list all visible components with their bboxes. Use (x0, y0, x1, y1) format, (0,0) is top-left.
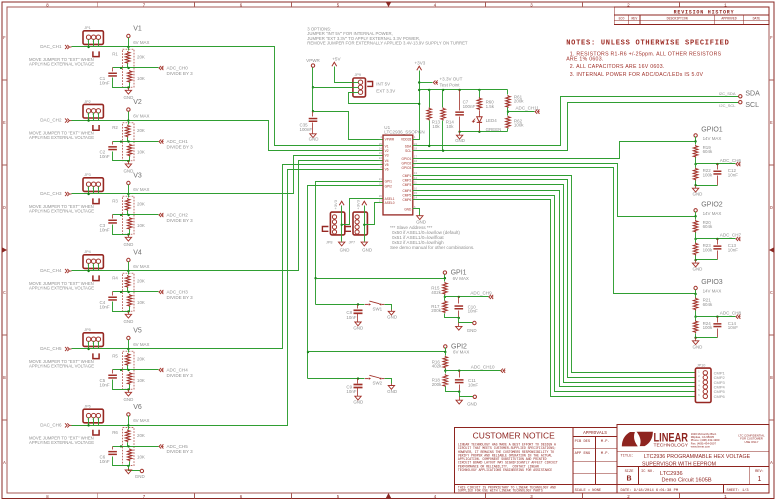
svg-text:+3V3: +3V3 (333, 199, 338, 209)
svg-text:VPWR: VPWR (306, 58, 320, 63)
svg-text:JP3: JP3 (84, 173, 91, 177)
svg-text:6V MAX: 6V MAX (133, 113, 149, 118)
output arrow ADC_CH2 (159, 213, 161, 217)
capacitor C1 10nF (112, 68, 114, 72)
frame center marker top (386, 2, 392, 7)
wire +5V to JP9 pin 1 (335, 67, 353, 83)
turret V6 GND (140, 469, 143, 472)
svg-text:1: 1 (758, 476, 762, 483)
svg-text:604k: 604k (703, 149, 713, 154)
svg-text:GPIO3: GPIO3 (402, 166, 412, 170)
svg-text:200k: 200k (431, 308, 441, 313)
svg-text:GND: GND (123, 242, 133, 247)
title block main box (617, 425, 769, 494)
wire JP8 vertical (341, 206, 343, 242)
svg-text:ADC_CH9: ADC_CH9 (470, 291, 492, 296)
svg-text:4: 4 (434, 495, 437, 500)
svg-text:JP9: JP9 (355, 73, 362, 77)
wire tap ADC_CH10 (444, 370, 446, 372)
svg-text:10nF: 10nF (728, 325, 738, 330)
ground JP7 (361, 242, 367, 246)
svg-text:6V MAX: 6V MAX (133, 40, 149, 45)
svg-text:5: 5 (337, 3, 340, 8)
svg-text:DAC_CH2: DAC_CH2 (40, 118, 62, 123)
svg-text:10K: 10K (137, 378, 145, 383)
svg-text:10nF: 10nF (346, 389, 356, 394)
turret V6 (127, 413, 130, 416)
svg-text:M.P.: M.P. (601, 452, 610, 456)
resistor R17 200k (444, 297, 446, 301)
jumper JP4 pin stubs (88, 264, 90, 271)
svg-text:GND: GND (123, 95, 133, 100)
svg-text:5: 5 (337, 495, 340, 500)
wire net V6 rail (72, 170, 379, 426)
svg-text:GND: GND (455, 138, 465, 143)
turret V1 (127, 34, 130, 37)
wire net V3 rail (72, 156, 379, 194)
turret V5 (127, 336, 130, 339)
turret V4 (127, 258, 130, 261)
svg-text:10nF: 10nF (100, 154, 110, 159)
wire net GPIO3 (417, 168, 696, 294)
output arrow ADC_CH7 (736, 237, 738, 241)
wire net CMP1 (417, 176, 696, 373)
svg-text:ADC_CH11: ADC_CH11 (516, 106, 540, 111)
svg-text:20K: 20K (137, 202, 145, 207)
pin 23 V3 (379, 155, 383, 157)
svg-text:A: A (770, 461, 773, 466)
svg-text:GPIO3: GPIO3 (701, 279, 723, 286)
svg-text:GND: GND (693, 344, 703, 349)
svg-text:ADC_CH6: ADC_CH6 (720, 158, 742, 163)
pin 6 GND (413, 208, 417, 210)
svg-text:LTC2936 PROGRAMMABLE HEX VOLTA: LTC2936 PROGRAMMABLE HEX VOLTAGE (644, 454, 751, 460)
svg-text:10nF: 10nF (100, 305, 110, 310)
svg-text:GPIO1: GPIO1 (701, 127, 723, 134)
connector JP3 (3-pin jumper) (83, 178, 103, 192)
svg-text:SCL: SCL (405, 149, 411, 153)
capacitor C11 10nF (459, 371, 461, 378)
switch SW2 (365, 378, 369, 380)
svg-text:GND: GND (123, 397, 133, 402)
svg-text:GND: GND (416, 219, 426, 224)
svg-text:200k: 200k (432, 382, 442, 387)
pin 10 CMP4 (413, 190, 417, 192)
svg-text:10nF: 10nF (468, 382, 478, 387)
pin 13 CMP1 (413, 175, 417, 177)
svg-text:6V MAX: 6V MAX (453, 350, 469, 355)
svg-text:GND: GND (362, 248, 372, 253)
wire net GPI2 from chip (308, 186, 379, 379)
svg-text:DATE: 9/18/2014 6:01:38 PM: DATE: 9/18/2014 6:01:38 PM (621, 488, 679, 493)
wire GPI2 gnd turret (458, 391, 460, 393)
svg-text:E: E (3, 121, 6, 126)
turret V2 (127, 108, 130, 111)
svg-text:3: 3 (530, 3, 533, 8)
svg-text:2: 2 (627, 3, 630, 8)
svg-text:V6: V6 (133, 404, 142, 411)
svg-text:PCB DES: PCB DES (575, 440, 591, 444)
wire +3V3 vertical (413, 71, 420, 140)
svg-text:DAC_CH6: DAC_CH6 (40, 422, 62, 427)
svg-text:10K: 10K (137, 150, 145, 155)
wire tap ADC_CH9 (444, 296, 446, 298)
wire net I2C_SDA (417, 97, 739, 146)
svg-text:4: 4 (434, 3, 437, 8)
svg-text:CMP1: CMP1 (402, 174, 411, 178)
wire net V2 rail (72, 121, 379, 151)
wire GPI1 gnd turret (458, 317, 460, 319)
input arrow DAC_CH5 (67, 347, 69, 351)
LED LED4 GREEN (479, 111, 481, 117)
ground C7/LED (459, 132, 461, 136)
pin 22 V4 (379, 160, 383, 162)
svg-text:GND: GND (387, 389, 397, 394)
wire VPWR (312, 68, 314, 112)
svg-text:10k: 10k (432, 124, 440, 129)
svg-text:B: B (770, 376, 773, 381)
wire tap ADC_CH6 (694, 163, 696, 165)
output arrow ADC_CH3 (159, 290, 161, 294)
wire GPI1 to switch (316, 304, 365, 306)
jumper shunt marker JP6 (93, 430, 99, 435)
svg-text:10nF: 10nF (100, 459, 110, 464)
pin 21 GPI1 (379, 181, 383, 183)
svg-text:SHEET: 1/3: SHEET: 1/3 (727, 488, 749, 493)
svg-text:10nF: 10nF (728, 173, 738, 178)
resistor R18 200k (445, 371, 447, 374)
svg-text:DIVIDE BY 3: DIVIDE BY 3 (167, 218, 194, 223)
svg-text:10nF: 10nF (346, 315, 356, 320)
svg-text:SCL: SCL (745, 102, 759, 109)
wire SW1 to ground (385, 305, 392, 310)
svg-text:M.P.: M.P. (601, 440, 610, 444)
svg-text:NOTES: UNLESS OTHERWISE SPECIF: NOTES: UNLESS OTHERWISE SPECIFIED (566, 40, 729, 48)
pin 2 V6 (379, 169, 383, 171)
svg-text:GND: GND (387, 315, 397, 320)
svg-text:6V MAX: 6V MAX (133, 342, 149, 347)
svg-text:www.linear.com: www.linear.com (691, 444, 711, 448)
ground V6 divider (128, 469, 130, 470)
svg-text:F: F (3, 36, 6, 41)
svg-text:DAC_CH5: DAC_CH5 (40, 346, 62, 351)
capacitor C12 10nF (717, 164, 719, 170)
svg-text:SCALE = NONE: SCALE = NONE (575, 489, 602, 493)
ground GPI2 divider (459, 397, 461, 401)
wire +3V3 rail (420, 89, 508, 91)
svg-text:6V MAX: 6V MAX (133, 418, 149, 423)
svg-text:7: 7 (143, 3, 146, 8)
svg-text:6: 6 (240, 3, 243, 8)
svg-text:10nF: 10nF (728, 247, 738, 252)
wire V6 bottom to turret (129, 466, 141, 471)
svg-text:GPI1: GPI1 (385, 180, 392, 184)
svg-text:JP2: JP2 (84, 100, 91, 104)
svg-text:V5: V5 (133, 328, 142, 335)
pin 20 GPI2 (379, 185, 383, 187)
wire net V4 rail (72, 161, 379, 271)
svg-text:GPIO2: GPIO2 (402, 162, 412, 166)
svg-text:R2: R2 (112, 125, 118, 130)
svg-text:APPROVED: APPROVED (721, 16, 736, 20)
jumper JP3 pin stubs (88, 187, 90, 194)
svg-text:20K: 20K (137, 357, 145, 362)
svg-text:DIVIDE BY 3: DIVIDE BY 3 (167, 295, 194, 300)
output arrow ADC_CH5 (159, 444, 161, 448)
wire GPIO1 bottom (696, 185, 718, 187)
svg-text:REVISION HISTORY: REVISION HISTORY (674, 10, 735, 16)
svg-text:R4: R4 (112, 276, 118, 281)
turret GPI1 (443, 271, 446, 274)
pin 24 V2 (379, 150, 383, 152)
wire GPI2 node feed (308, 351, 446, 353)
resistor R22 100k (695, 164, 697, 168)
svg-text:V4: V4 (385, 159, 389, 163)
wire tap ADC divider V6 (113, 446, 159, 448)
svg-text:DIVIDE BY 3: DIVIDE BY 3 (167, 373, 194, 378)
svg-text:ARE 1% 0603.: ARE 1% 0603. (566, 56, 603, 62)
resistor network R4 20K/10K (123, 273, 134, 311)
svg-text:GND: GND (467, 402, 477, 407)
svg-text:DIVIDE BY 3: DIVIDE BY 3 (167, 71, 194, 76)
svg-text:APP ENG: APP ENG (575, 452, 591, 456)
wire tap ADC_CH7 (694, 238, 696, 240)
svg-text:TECHNOLOGY: TECHNOLOGY (654, 442, 689, 447)
resistor network R2 20K/10K (123, 123, 134, 161)
svg-text:USE ONLY: USE ONLY (745, 440, 759, 444)
ground C9 (355, 396, 361, 400)
wire tap ADC divider V4 (113, 291, 159, 293)
wire LED bottom rail (460, 131, 508, 133)
jumper shunt marker JP1 (93, 51, 99, 56)
pin 17 GPIO1 (413, 158, 417, 160)
ground SW2 (391, 384, 393, 386)
svg-text:10nF: 10nF (468, 309, 478, 314)
svg-text:V2: V2 (385, 149, 389, 153)
jumper JP2 pin stubs (88, 113, 90, 121)
svg-text:200k: 200k (514, 99, 524, 104)
svg-text:V6: V6 (385, 168, 389, 172)
revision history table (614, 7, 769, 25)
svg-text:DATE: DATE (753, 16, 761, 20)
svg-text:+5V: +5V (332, 57, 341, 62)
svg-text:TECHNOLOGY APPLICATIONS ENGINE: TECHNOLOGY APPLICATIONS ENGINEERING FOR … (458, 468, 552, 472)
svg-text:14V MAX: 14V MAX (703, 211, 722, 216)
svg-text:ADC_CH8: ADC_CH8 (720, 310, 742, 315)
test point +3.3V OUT (420, 82, 433, 84)
svg-text:TITLE:: TITLE: (621, 455, 634, 459)
svg-text:6: 6 (240, 495, 243, 500)
svg-text:E: E (770, 121, 773, 126)
capacitor C13 10nF (717, 239, 719, 245)
svg-text:V5: V5 (385, 163, 389, 167)
output arrow ADC_CH10 (501, 369, 503, 373)
pin 7 GPIO3 (413, 167, 417, 169)
wire tap ADC divider V1 (113, 67, 159, 69)
output arrow ADC_CH4 (159, 368, 161, 372)
wire tap ADC divider V3 (113, 214, 159, 216)
pin 19 SDA (413, 145, 417, 147)
wire net GPI1 from chip (316, 182, 379, 305)
svg-text:REMOVE JUMPER FOR EXTERNALLY A: REMOVE JUMPER FOR EXTERNALLY APPLIED 3.4… (307, 41, 468, 46)
svg-text:JP10: JP10 (697, 364, 706, 368)
svg-text:7: 7 (143, 495, 146, 500)
svg-text:+3.3V OUT: +3.3V OUT (440, 76, 463, 81)
frame column ticks top/bottom (97, 2, 99, 7)
svg-text:1: 1 (724, 3, 727, 8)
svg-text:GND: GND (309, 137, 319, 142)
pin 4 VPWR (379, 139, 383, 141)
wire ASEL1 net (342, 199, 379, 225)
svg-text:DAC_CH1: DAC_CH1 (40, 44, 62, 49)
output arrow ADC_CH9 (489, 295, 491, 299)
svg-text:3: 3 (530, 495, 533, 500)
svg-text:6V MAX: 6V MAX (133, 264, 149, 269)
svg-text:R6: R6 (112, 430, 118, 435)
capacitor C5 10nF (112, 370, 114, 374)
wire net CMP2 (417, 180, 696, 378)
wire GPI1 node feed (316, 278, 445, 280)
svg-text:1: 1 (724, 495, 727, 500)
svg-text:+3V3: +3V3 (356, 199, 361, 209)
wire net V1 rail (72, 47, 379, 146)
wire JP9 pin 3 to +3V3 node (349, 93, 420, 104)
turret V3 (127, 181, 130, 184)
resistor R24 100k (695, 317, 697, 321)
pin 1 VDD33 (413, 139, 417, 141)
resistor R60 1.5k (479, 90, 481, 98)
svg-text:DAC_CH3: DAC_CH3 (40, 191, 62, 196)
ground GPIO1 (695, 186, 697, 189)
svg-text:D: D (3, 206, 6, 211)
svg-text:I2C_SDA: I2C_SDA (719, 91, 736, 96)
wire net I2C_SCL (417, 103, 739, 151)
svg-text:VPWR: VPWR (385, 138, 395, 142)
ground GPIO3 (695, 338, 697, 341)
svg-text:GND: GND (693, 192, 703, 197)
svg-text:V4: V4 (133, 250, 142, 257)
svg-text:EXT 3.3V: EXT 3.3V (376, 89, 395, 94)
ground V2 divider (128, 161, 130, 164)
ground JP8 (339, 242, 345, 246)
wire net CMP4 (417, 191, 696, 387)
pin 3 V5 (379, 164, 383, 166)
svg-text:See demo manual for other comb: See demo manual for other combinations. (390, 245, 474, 250)
output arrow ADC_CH11 (535, 110, 537, 114)
svg-text:GND: GND (404, 207, 412, 211)
svg-text:20K: 20K (137, 279, 145, 284)
svg-text:CMP6: CMP6 (714, 394, 726, 399)
wire chip GND (417, 209, 420, 216)
svg-text:F: F (770, 36, 773, 41)
capacitor C7 100nF (459, 90, 461, 111)
ground U1 (417, 216, 423, 220)
svg-text:I2C_SCL: I2C_SCL (719, 103, 736, 108)
svg-text:3. INTERNAL POWER FOR ADC/DAC/: 3. INTERNAL POWER FOR ADC/DAC/LEDs IS 5.… (570, 72, 704, 78)
svg-text:V2: V2 (133, 99, 142, 106)
turret SDA (739, 95, 742, 98)
ground GPIO2 (695, 260, 697, 263)
wire net V5 rail (72, 165, 379, 349)
svg-text:20K: 20K (137, 128, 145, 133)
ground C8 (355, 322, 361, 326)
svg-text:JP5: JP5 (84, 328, 91, 332)
wire SW2 to ground (385, 379, 392, 384)
ground V3 divider (128, 235, 130, 238)
svg-text:100k: 100k (703, 247, 713, 252)
resistor R13 10k (429, 90, 431, 108)
wire net GPIO1 (417, 142, 696, 159)
output arrow ADC_CH1 (159, 140, 161, 144)
turret SCL (739, 101, 742, 104)
svg-text:604k: 604k (703, 224, 713, 229)
wire ADC_CH11 tap (507, 111, 509, 113)
capacitor C3 10nF (112, 215, 114, 219)
svg-text:GND: GND (693, 267, 703, 272)
op-amp U1 LTC2936_SSOPGN body (383, 135, 413, 215)
svg-text:+3V3: +3V3 (415, 60, 426, 65)
svg-text:V1: V1 (133, 26, 142, 33)
input arrow DAC_CH2 (67, 119, 69, 123)
turret GPI2 (444, 345, 447, 348)
jumper JP5 pin stubs (88, 342, 90, 349)
svg-text:LED4: LED4 (486, 118, 498, 123)
svg-text:GND: GND (123, 319, 133, 324)
ground GPI1 divider (458, 323, 460, 327)
svg-text:B: B (626, 476, 631, 483)
svg-text:GPIO1: GPIO1 (402, 157, 412, 161)
svg-text:GND: GND (353, 325, 363, 330)
svg-text:CMP3: CMP3 (402, 183, 411, 187)
ground C35 (310, 134, 316, 138)
output arrow ADC_CH8 (736, 315, 738, 319)
capacitor C9 10nF (357, 379, 359, 384)
svg-text:B: B (3, 376, 6, 381)
svg-text:DIVIDE BY 3: DIVIDE BY 3 (167, 449, 194, 454)
svg-text:10k: 10k (446, 124, 454, 129)
svg-text:2: 2 (627, 495, 630, 500)
svg-text:GPI2: GPI2 (385, 184, 392, 188)
jumper shunt marker JP2 (93, 125, 99, 130)
resistor R20 604k (695, 217, 697, 220)
jumper shunt marker JP7 (345, 227, 351, 232)
wire tap ADC divider V5 (113, 369, 159, 371)
resistor network R3 20K/10K (123, 196, 134, 234)
svg-text:V3: V3 (133, 173, 142, 180)
svg-text:10K: 10K (137, 300, 145, 305)
svg-text:10nF: 10nF (100, 228, 110, 233)
resistor R15 402k (444, 279, 446, 282)
capacitor C4 10nF (112, 292, 114, 296)
svg-text:6V MAX: 6V MAX (453, 276, 469, 281)
svg-text:ADC_CH7: ADC_CH7 (720, 233, 742, 238)
pin 26 ASEL1 (379, 198, 383, 200)
resistor R21 604k (695, 294, 697, 298)
wire net CMP3 (417, 185, 696, 383)
ground V4 divider (128, 312, 130, 315)
svg-text:100nF: 100nF (463, 104, 476, 109)
capacitor C35 100nF (312, 112, 314, 117)
svg-text:R1: R1 (112, 52, 118, 57)
jumper shunt marker JP3 (93, 198, 99, 203)
wire net CMP5 (417, 196, 696, 392)
pin 25 V1 (379, 145, 383, 147)
frame center marker left (2, 247, 7, 253)
input arrow DAC_CH1 (67, 45, 69, 49)
turret GPIO2 (694, 209, 697, 212)
ground SW1 (391, 310, 393, 312)
svg-text:C: C (770, 291, 773, 296)
